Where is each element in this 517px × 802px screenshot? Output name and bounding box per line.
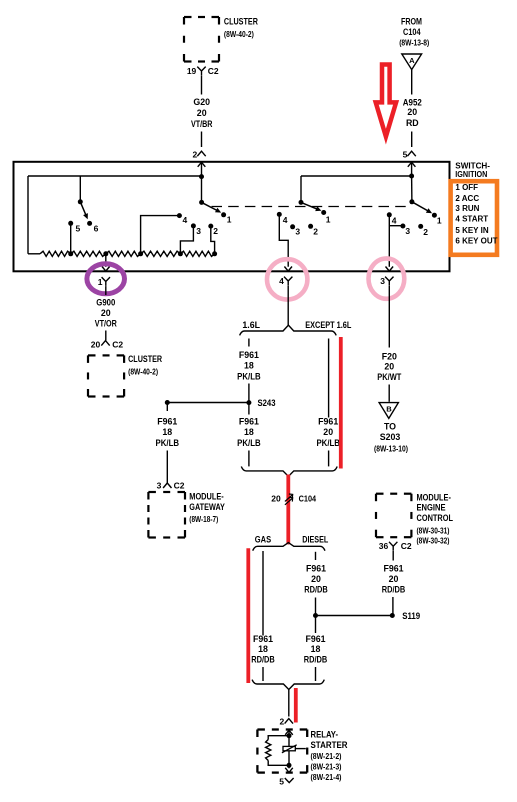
node pivot1 [199,200,204,205]
wire G900 upper [105,286,107,295]
svg-text:4: 4 [392,215,397,225]
svg-text:GAS: GAS [255,535,271,545]
svg-text:F961: F961 [239,416,259,426]
svg-text:3: 3 [295,226,300,236]
svg-text:F961: F961 [383,563,403,573]
wire A952 upper segment [411,70,413,95]
off-page triangle A [402,54,422,70]
svg-text:20: 20 [91,340,101,350]
node pivot2 [299,200,304,205]
svg-text:(8W-21-4): (8W-21-4) [311,772,342,782]
svg-text:C104: C104 [299,494,317,504]
svg-text:1.6L: 1.6L [242,320,260,330]
contact 2 sec3 [418,224,423,229]
svg-text:3: 3 [405,226,410,236]
connector 1 fork [102,277,110,286]
wire contact4 sec3 to exit [388,215,390,267]
exit arrow connector1 [102,267,110,272]
wire inner left vertical [27,176,29,254]
relay entry arrow [285,730,293,735]
svg-text:18: 18 [311,644,321,654]
contact 2 sec2 [308,224,313,229]
node r2 (to G900) [103,251,108,256]
svg-text:VT/OR: VT/OR [95,319,118,329]
svg-text:F961: F961 [318,416,338,426]
svg-text:3: 3 [380,276,385,286]
svg-text:PK/LB: PK/LB [237,438,261,448]
svg-text:G20: G20 [193,97,210,107]
contact 4 sec1 [177,213,182,218]
svg-text:C2: C2 [112,340,123,350]
svg-text:F961: F961 [306,564,326,574]
svg-text:19: 19 [187,66,197,76]
svg-text:C2: C2 [401,541,412,551]
resistor segment e [180,251,214,256]
node DIESEL junction [313,613,318,618]
wire pin2 to pivot1 [201,177,203,203]
svg-text:S203: S203 [380,432,401,442]
contact 3 sec2 [290,224,295,229]
svg-text:20: 20 [389,574,399,584]
resistor segment b [71,251,106,256]
switch blade section1 [202,202,218,210]
wire gateway stub lower [166,451,168,484]
wire G20 lower segment [201,132,203,148]
svg-text:(8W-40-2): (8W-40-2) [128,367,158,377]
wire into C104 [287,476,289,544]
wire ECM to S119 [392,597,394,616]
connector C2 pin 3 of gateway [163,483,171,488]
wire inner top-right horizontal [301,175,412,177]
wire blade stub sec3 [389,225,401,227]
svg-text:5: 5 [403,149,408,159]
svg-text:GATEWAY: GATEWAY [189,502,225,512]
wire contact to case [295,748,306,750]
svg-text:IGNITION: IGNITION [455,170,487,179]
svg-text:RELAY-: RELAY- [311,730,339,740]
svg-text:S119: S119 [402,611,420,621]
svg-text:CONTROL: CONTROL [417,513,454,523]
svg-text:F20: F20 [382,352,397,362]
pink highlight circle (connector 4) [267,259,307,299]
contact 3 sec3 [400,224,405,229]
resistor segment c [106,251,141,256]
split brace 1.6L [240,325,337,335]
contact 4 sec3 [387,212,392,217]
ganged-switch dashed link [212,206,411,208]
svg-text:VT/BR: VT/BR [191,119,213,129]
wire contact4 sec2 to exit [279,214,288,266]
svg-text:3: 3 [196,226,201,236]
svg-text:F961: F961 [253,634,273,644]
wire inner top-left horizontal [28,175,202,177]
svg-text:STARTER: STARTER [311,740,349,750]
svg-text:2: 2 [279,717,284,727]
red highlight line (GAS) [246,548,250,683]
svg-text:5: 5 [76,224,81,234]
wire 1.6L stub [248,339,250,347]
switch box outline [14,162,450,271]
component MODULE-ENGINE CONTROL dashed box [376,493,384,495]
wire contact down [288,751,290,766]
svg-text:RD/DB: RD/DB [251,654,275,664]
connector pin 2 of ignition switch [197,151,205,156]
wire A952 lower segment [411,132,413,148]
svg-text:TO: TO [384,422,396,432]
svg-text:4: 4 [183,215,188,225]
node S119 [390,613,395,618]
red highlight line (through C104) [286,475,290,545]
contact 2 sec1 [208,224,213,229]
resistor segment d [141,251,181,256]
node relay top junction [287,733,292,738]
svg-text:3: 3 [157,481,162,491]
svg-text:EXCEPT 1.6L: EXCEPT 1.6L [305,320,352,330]
connector pin 5 of relay [285,778,294,783]
svg-text:CLUSTER: CLUSTER [128,354,163,364]
connector C2 pin 20 of cluster [101,341,109,346]
svg-text:4: 4 [283,215,288,225]
wire junction to S119 [316,615,393,617]
node S243 [246,400,251,405]
svg-text:20: 20 [407,107,417,117]
svg-text:18: 18 [244,360,254,370]
svg-text:F961: F961 [157,416,177,426]
svg-text:1: 1 [227,214,232,224]
svg-text:A: A [409,56,415,65]
svg-text:18: 18 [258,644,268,654]
relay contact box [283,746,295,750]
red highlight line (to relay) [294,688,298,723]
node pin5 junction [409,174,414,179]
svg-text:A952: A952 [403,98,422,108]
wire DIESEL junction down [315,616,317,634]
wire DIESEL to junction [315,598,317,616]
svg-text:2: 2 [213,226,218,236]
svg-text:18: 18 [162,427,172,437]
svg-text:20: 20 [197,108,207,118]
node key-in pivot [78,199,83,204]
wire connector4 down [287,286,289,325]
svg-text:36: 36 [379,541,389,551]
svg-text:RD/DB: RD/DB [382,585,406,595]
svg-text:C104: C104 [403,27,421,37]
wire G20 upper segment [201,76,203,95]
contact 4 sec2 [277,212,282,217]
svg-text:2: 2 [423,227,428,237]
wire GAS branch [262,551,264,636]
svg-text:PK/LB: PK/LB [156,438,180,448]
connector C2 pin 19 of cluster [197,67,205,76]
svg-text:MODULE-: MODULE- [417,493,451,503]
wire pivot2 feed [300,176,302,202]
contact 1 sec3 [432,213,437,218]
svg-text:20: 20 [101,308,111,318]
svg-text:F961: F961 [305,634,325,644]
switch blade key-in (to 6) [80,202,86,216]
split brace GAS/DIESEL [253,543,325,551]
svg-text:2: 2 [313,226,318,236]
svg-text:20: 20 [323,427,333,437]
red highlight line (EXCEPT 1.6L) [339,337,343,469]
svg-text:(8W-18-7): (8W-18-7) [189,514,218,524]
relay coil [266,740,271,761]
svg-text:ENGINE: ENGINE [417,503,446,513]
node r4 [178,251,183,256]
node r5 [212,251,217,256]
wire EXCEPT 1.6L to merge [328,451,330,467]
wire G900 lower [105,331,107,341]
svg-text:2: 2 [192,149,197,159]
svg-text:18: 18 [244,427,254,437]
merge brace to starter relay [252,680,324,690]
component MODULE-GATEWAY dashed box [148,491,156,493]
contact 1 sec1 [221,212,226,217]
wire connector3 down [388,286,390,348]
svg-text:20: 20 [271,494,281,504]
svg-text:4 START: 4 START [455,215,488,224]
svg-text:4: 4 [279,276,284,286]
svg-text:1 OFF: 1 OFF [455,183,478,192]
wire r2 to exit [105,254,107,267]
wire S243 to gateway junction [167,402,249,404]
wire below S243 [248,403,250,415]
svg-text:(8W-30-31): (8W-30-31) [417,525,450,535]
svg-text:C2: C2 [174,481,185,491]
connector 4 fork [284,277,292,286]
svg-text:1: 1 [437,215,442,225]
node r1 [68,251,73,256]
connector 3 fork [385,277,393,286]
wire contact4 sec1 to resistor [141,216,180,254]
contact 6 [87,221,92,226]
wire GAS to merge [262,667,264,681]
component CLUSTER (mid) dashed box [88,354,96,356]
node pivot3 [409,199,414,204]
resistor segment a [40,251,71,256]
svg-text:CLUSTER: CLUSTER [224,17,259,27]
wire contact5 to resistor [70,223,72,254]
exit arrow connector4 [284,267,292,272]
wire inner bottom-left stub [28,253,40,255]
svg-text:2 ACC: 2 ACC [455,194,479,203]
merge brace above C104 [241,467,337,477]
pink highlight circle (connector 3) [369,258,405,298]
off-page triangle B [379,403,398,419]
connector pin 5 of ignition switch [407,151,415,156]
svg-text:B: B [386,404,392,413]
connector pin 2 of relay [285,719,293,724]
node pin2 junction [199,174,204,179]
switch blade section2 [301,202,318,209]
svg-text:3 RUN: 3 RUN [455,204,479,213]
svg-text:5 KEY IN: 5 KEY IN [455,226,488,235]
wire DIESEL to merge [315,667,317,681]
svg-text:DIESEL: DIESEL [302,535,329,545]
wire ECM upper [392,551,394,561]
svg-text:5: 5 [279,776,284,786]
wire F20 lower [388,385,390,402]
pin5 entry arrow [408,162,416,167]
svg-text:RD/DB: RD/DB [304,585,328,595]
component RELAY-STARTER dashed box [257,728,265,730]
svg-text:(8W-21-3): (8W-21-3) [311,762,342,772]
svg-text:(8W-13-8): (8W-13-8) [399,38,429,48]
svg-text:(8W-13-10): (8W-13-10) [374,444,408,454]
wire contact2 sec1 to resistor [211,226,215,254]
svg-text:FROM: FROM [401,17,422,27]
wire DIESEL stub [315,552,317,560]
switch blade section3 [412,202,429,211]
contact 5 [68,221,73,226]
svg-text:F961: F961 [239,350,259,360]
svg-text:C2: C2 [208,66,219,76]
svg-text:PK/LB: PK/LB [316,438,340,448]
in-line connector C104 [285,494,293,501]
wire to S243 [248,384,250,403]
svg-text:20: 20 [311,574,321,584]
svg-text:RD: RD [406,118,419,128]
wire key-in switch feed [79,176,81,202]
component CLUSTER (top) dashed box [184,16,192,18]
svg-text:6 KEY OUT: 6 KEY OUT [455,237,497,246]
contact 1 sec2 [321,210,326,215]
orange legend box [451,181,497,255]
relay exit arrow [288,765,290,768]
wire contact3 sec1 to resistor [180,226,193,254]
svg-text:1: 1 [326,214,331,224]
red highlight arrow [376,65,396,137]
svg-text:G900: G900 [96,298,115,308]
pin2 entry arrow [198,162,206,167]
svg-text:RD/DB: RD/DB [304,654,328,664]
exit arrow connector3 [386,267,394,272]
svg-text:PK/WT: PK/WT [377,372,402,382]
wire merge to relay pin2 [288,690,290,717]
svg-text:20: 20 [384,362,394,372]
purple highlight circle (connector 1) [87,264,125,294]
svg-text:(8W-21-2): (8W-21-2) [311,751,342,761]
svg-text:1: 1 [98,277,103,287]
wire pivot3 feed [411,176,413,202]
svg-text:6: 6 [94,224,99,234]
node relay bottom junction [287,763,292,768]
svg-text:S243: S243 [258,398,276,408]
node r3 [138,251,143,256]
svg-text:PK/LB: PK/LB [237,371,261,381]
wire to coil top [268,736,289,740]
wire to contact [288,736,290,747]
wire EXCEPT 1.6L upper [328,339,330,418]
wire gateway stub upper [166,403,168,412]
node junction above gateway [165,400,170,405]
svg-text:MODULE-: MODULE- [189,492,223,502]
wire coil bottom [268,761,289,766]
contact 3 sec1 [191,223,196,228]
svg-text:(8W-30-32): (8W-30-32) [417,535,450,545]
svg-text:(8W-40-2): (8W-40-2) [224,29,254,39]
connector C2 pin 36 of ECM [389,542,397,551]
wire 1.6L to merge [248,451,250,467]
